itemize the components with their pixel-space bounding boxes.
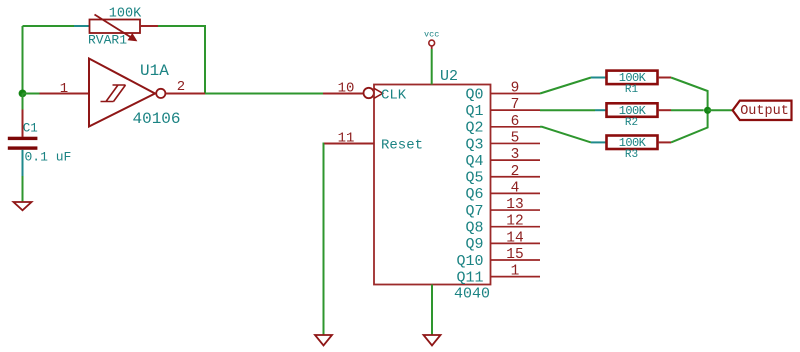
pin number 14: [506, 230, 523, 246]
pin name Q6: [465, 186, 483, 203]
pin name Q0: [465, 86, 483, 103]
pin name Q7: [465, 203, 483, 220]
label R2 value 100K: [619, 104, 647, 118]
pin number 6: [511, 114, 520, 130]
pin 4 of U2 (Q6): [491, 192, 541, 194]
wire R1 left pin (teal): [591, 77, 607, 79]
ground under Reset wire: [315, 335, 332, 346]
wire junction to U1A input: [23, 93, 40, 95]
resistor R2: [607, 103, 658, 117]
pin name Q11: [456, 269, 483, 286]
label R2 reference: [625, 117, 638, 129]
pin 1 of U1A: [40, 93, 90, 95]
pin name Reset: [381, 138, 423, 154]
pin number 15: [506, 247, 523, 263]
resistor RVAR1: [90, 15, 141, 41]
pin number 2: [511, 164, 520, 180]
ground under C1: [14, 202, 32, 210]
svg-text:U1A: U1A: [140, 62, 169, 80]
inverter U1A: [89, 59, 165, 127]
svg-text:100K: 100K: [619, 136, 647, 150]
wire R3 right pin (red): [658, 141, 671, 143]
pin 2 of U1A: [166, 93, 206, 95]
svg-text:2: 2: [511, 164, 520, 180]
svg-text:Q4: Q4: [465, 153, 483, 170]
label U2 value 4040: [454, 286, 490, 303]
svg-text:Q1: Q1: [465, 103, 483, 120]
junction node A: [19, 90, 27, 98]
pin 9 of U2 (Q0): [491, 93, 541, 95]
pin 1 of U2 (Q11): [491, 276, 541, 278]
wire Q1 to R2: [540, 109, 595, 111]
label U1A reference: [140, 62, 169, 80]
svg-text:Q7: Q7: [465, 203, 483, 220]
svg-text:R2: R2: [625, 117, 638, 129]
svg-text:Q8: Q8: [465, 220, 483, 237]
junction node Output: [704, 107, 711, 114]
svg-text:13: 13: [506, 197, 523, 213]
wire VCC to U2: [431, 49, 433, 85]
svg-text:Q0: Q0: [465, 86, 483, 103]
pin 7 of U2 (Q1): [491, 109, 541, 111]
svg-text:C1: C1: [23, 122, 38, 136]
pin number 4: [511, 180, 520, 196]
pin number 2: [177, 79, 185, 95]
pin number 3: [511, 147, 520, 163]
svg-text:R1: R1: [625, 84, 639, 96]
svg-text:9: 9: [511, 81, 520, 97]
wire Q0 to R1: [540, 78, 591, 94]
wire R2 right pin (red): [658, 109, 671, 111]
pin number 10: [338, 81, 355, 97]
svg-text:14: 14: [506, 230, 523, 246]
svg-text:Q10: Q10: [456, 253, 483, 270]
wire R3 to junction: [671, 110, 708, 142]
wire feedback right side: [158, 26, 205, 94]
svg-text:1: 1: [60, 81, 68, 97]
wire Q2 to R3: [540, 127, 591, 143]
svg-text:Q6: Q6: [465, 186, 483, 203]
svg-text:vcc: vcc: [424, 30, 439, 40]
label U2 reference: [440, 68, 458, 85]
svg-text:7: 7: [511, 97, 520, 113]
power VCC: [424, 30, 439, 49]
svg-text:Q9: Q9: [465, 236, 483, 253]
svg-text:100K: 100K: [619, 104, 647, 118]
svg-text:10: 10: [338, 81, 355, 97]
wire junction to Output label: [708, 109, 733, 111]
pin name CLK: [381, 87, 407, 103]
wire R3 left pin (teal): [591, 141, 607, 143]
pin 13 of U2 (Q7): [491, 209, 541, 211]
svg-text:CLK: CLK: [381, 87, 407, 103]
capacitor C1: [8, 94, 38, 177]
label RVAR1 reference: [88, 32, 127, 47]
svg-text:5: 5: [511, 130, 520, 146]
label R3 value 100K: [619, 136, 647, 150]
svg-text:40106: 40106: [133, 110, 181, 128]
svg-text:Q3: Q3: [465, 136, 483, 153]
pin name Q2: [465, 120, 483, 137]
svg-text:Q11: Q11: [456, 269, 483, 286]
pin name Q9: [465, 236, 483, 253]
pin 2 of U2 (Q5): [491, 176, 541, 178]
ground under U2: [424, 335, 441, 346]
wire feedback top-left vertical: [22, 26, 24, 94]
svg-text:Output: Output: [740, 104, 789, 119]
svg-text:3: 3: [511, 147, 520, 163]
pin 14 of U2 (Q9): [491, 242, 541, 244]
pin 15 of U2 (Q10): [491, 259, 541, 261]
pin name Q3: [465, 136, 483, 153]
label RVAR1 value 100K: [109, 7, 142, 22]
pin name Q1: [465, 103, 483, 120]
svg-text:4: 4: [511, 180, 520, 196]
pin number 5: [511, 130, 520, 146]
label U1A value 40106: [133, 110, 181, 128]
wire C1 to ground: [22, 176, 24, 202]
svg-text:6: 6: [511, 114, 520, 130]
resistor R3: [607, 136, 658, 150]
svg-text:11: 11: [338, 131, 355, 147]
svg-text:U2: U2: [440, 68, 458, 85]
wire RVAR1 left pin (teal): [74, 25, 89, 27]
pin number 1: [60, 81, 68, 97]
pin 6 of U2 (Q2): [491, 126, 541, 128]
pin number 11: [338, 131, 355, 147]
wire feedback top horizontal: [23, 25, 75, 27]
wire R2 left pin (teal): [595, 109, 607, 111]
svg-text:R3: R3: [625, 149, 638, 161]
wire U1A output to U2 clk: [205, 93, 323, 95]
pin 12 of U2 (Q8): [491, 226, 541, 228]
svg-text:2: 2: [177, 79, 185, 95]
pin number 13: [506, 197, 523, 213]
label R1 reference: [625, 84, 639, 96]
svg-text:4040: 4040: [454, 286, 490, 303]
IC U2 body: [374, 85, 491, 285]
wire R1 to junction: [671, 78, 708, 111]
pin 10 of U2: [323, 93, 363, 95]
svg-text:1: 1: [511, 264, 520, 280]
pin name Q8: [465, 220, 483, 237]
label C1 value 0.1 uF: [25, 150, 72, 165]
pin number 1: [511, 264, 520, 280]
svg-text:Q5: Q5: [465, 170, 483, 187]
clock triangle mark: [374, 88, 383, 98]
label R1 value 100K: [619, 71, 647, 85]
wire R1 right pin (red): [658, 77, 671, 79]
wire R2 to junction: [671, 109, 704, 111]
pin 5 of U2 (Q3): [491, 142, 541, 144]
svg-text:15: 15: [506, 247, 523, 263]
svg-text:100K: 100K: [109, 7, 142, 22]
svg-text:Reset: Reset: [381, 138, 423, 154]
svg-text:Q2: Q2: [465, 120, 483, 137]
label R3 reference: [625, 149, 638, 161]
resistor R1: [607, 71, 658, 85]
pin name Q4: [465, 153, 483, 170]
wire U2 to ground: [431, 285, 433, 336]
wire Reset to ground: [323, 144, 326, 336]
pin number 12: [506, 214, 523, 230]
svg-text:100K: 100K: [619, 71, 647, 85]
svg-text:0.1 uF: 0.1 uF: [25, 150, 72, 165]
global label Output: [733, 101, 792, 120]
label C1 reference: [23, 122, 38, 136]
wire RVAR1 right pin (red): [140, 25, 158, 27]
pin number 9: [511, 81, 520, 97]
pin number 7: [511, 97, 520, 113]
pin name Q5: [465, 170, 483, 187]
svg-text:12: 12: [506, 214, 523, 230]
clock inversion bubble: [364, 88, 374, 98]
pin name Q10: [456, 253, 483, 270]
pin 3 of U2 (Q4): [491, 159, 541, 161]
svg-text:RVAR1: RVAR1: [88, 32, 127, 47]
pin 11 of U2: [324, 143, 374, 145]
